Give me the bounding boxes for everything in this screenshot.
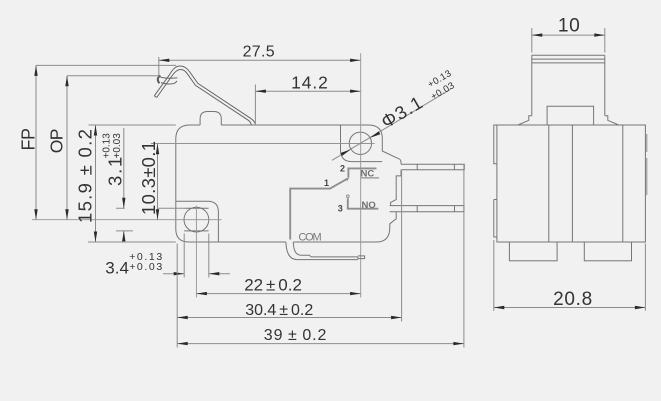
terminal NC	[401, 164, 464, 170]
schematic blade arrowhead	[345, 178, 350, 181]
svg-text:3: 3	[338, 204, 343, 214]
dim 30.4 arrows	[177, 316, 401, 319]
body bottom line extended	[88, 241, 176, 243]
dim 20.8 line	[494, 307, 646, 309]
end view top bump	[547, 106, 594, 125]
FP arrow	[34, 65, 37, 219]
svg-text:1: 1	[324, 178, 329, 188]
svg-text:+0.03: +0.03	[129, 261, 164, 273]
svg-text:3.1: 3.1	[105, 155, 126, 186]
svg-text:3.4: 3.4	[105, 258, 129, 277]
dim 22 arrows	[196, 292, 360, 295]
dim 27.5 line	[159, 59, 361, 61]
extension 30.4 right	[401, 171, 403, 322]
dim 14.2 line	[255, 90, 360, 92]
bottom mounting hole circle	[184, 207, 209, 232]
dim 14.2 arrows	[255, 90, 360, 93]
end view mold lines	[549, 125, 623, 242]
svg-text:NO: NO	[362, 200, 376, 211]
bottom hole centerline horizontal	[32, 219, 222, 221]
dim 10.3 line	[157, 144, 159, 220]
top hole / dims vertical centerline	[360, 53, 362, 297]
dim 20.8 arrows	[494, 306, 646, 309]
svg-text:39 ± 0.2: 39 ± 0.2	[264, 327, 328, 344]
lever tip end	[154, 96, 156, 98]
body top line extended	[89, 124, 176, 126]
dim 3.1 arrows	[122, 198, 125, 242]
terminal COM	[286, 242, 365, 260]
body outline	[176, 125, 401, 242]
end view right foot	[584, 242, 631, 261]
svg-text:10.3±0.1: 10.3±0.1	[138, 141, 159, 215]
dim 10 extensions	[532, 28, 605, 53]
svg-text:15.9 ± 0.2: 15.9 ± 0.2	[75, 128, 96, 223]
dia 3.1 rotated label	[375, 68, 460, 132]
terminal NO	[390, 206, 464, 212]
dim 10.3 arrows	[156, 144, 159, 220]
dim 15.9 arrows	[94, 125, 97, 242]
end view right flange	[646, 134, 648, 195]
schematic common blade	[290, 179, 347, 240]
dim 27.5 arrows	[159, 59, 361, 62]
svg-text:2: 2	[340, 164, 345, 174]
OP arrow	[65, 76, 68, 220]
top hole boss	[341, 125, 383, 162]
svg-text:20.8: 20.8	[553, 289, 593, 310]
bottom hole boss	[176, 201, 219, 242]
end view button	[532, 55, 605, 115]
end view left flange	[494, 125, 497, 237]
dim 20.8 extensions	[494, 240, 646, 311]
dim 10 arrows	[532, 33, 605, 36]
dim 3.4 extension lines	[184, 234, 209, 278]
dim 10 line	[532, 34, 605, 36]
end view left shoulder	[518, 116, 532, 125]
end view left foot	[509, 242, 557, 261]
svg-text:+0.13: +0.13	[102, 133, 113, 159]
dim dia 3.1 leader	[332, 89, 451, 160]
top hole centerline horizontal	[151, 143, 375, 145]
svg-text:OP: OP	[47, 129, 67, 153]
schematic pin 3 contact circle	[347, 195, 350, 198]
lever tip curl	[161, 77, 178, 84]
FP reference line	[36, 65, 176, 219]
OP reference line	[67, 76, 160, 220]
lever outer edge	[154, 66, 255, 124]
schematic pin 3 NO link	[348, 198, 379, 208]
dim 3.4 arrows	[174, 272, 220, 275]
dim 22 line	[196, 293, 360, 295]
svg-text:27.5: 27.5	[243, 44, 275, 61]
extension 39 right	[463, 164, 465, 348]
svg-text:22 ± 0.2: 22 ± 0.2	[244, 276, 302, 295]
plunger dome	[200, 112, 221, 126]
dim 27.5 extension left	[158, 57, 160, 77]
dim 39 arrows	[177, 342, 464, 345]
dim 3.1 rotated text	[102, 133, 126, 186]
svg-text:FP: FP	[19, 128, 39, 150]
dim 3.1 slot extension lines	[116, 208, 184, 231]
dim 30.4 line	[177, 317, 401, 319]
dim 39 line	[177, 343, 464, 345]
svg-text:+0.03: +0.03	[112, 133, 123, 159]
svg-text:14.2: 14.2	[291, 72, 329, 92]
dim 3.4 arrow lines	[163, 273, 230, 275]
schematic pin 2 NC link	[348, 168, 376, 177]
bottom hole centerline vertical	[195, 206, 197, 298]
top mounting hole	[349, 132, 371, 154]
svg-text:Φ3.1: Φ3.1	[377, 91, 427, 132]
end view body	[497, 125, 646, 242]
dia 3.1 arrows	[340, 131, 380, 156]
bottom hole flat edges	[184, 208, 208, 231]
svg-text:10: 10	[558, 15, 581, 36]
svg-text:30.4 ± 0.2: 30.4 ± 0.2	[245, 302, 313, 319]
extension body left	[176, 244, 178, 348]
lever inner edge	[157, 70, 252, 125]
svg-text:COM: COM	[298, 232, 321, 244]
dim 14.2 extension left	[254, 85, 256, 126]
end view right shoulder	[605, 116, 619, 125]
dim 15.9 line	[95, 125, 97, 242]
dim 3.1 leader line	[123, 128, 125, 243]
